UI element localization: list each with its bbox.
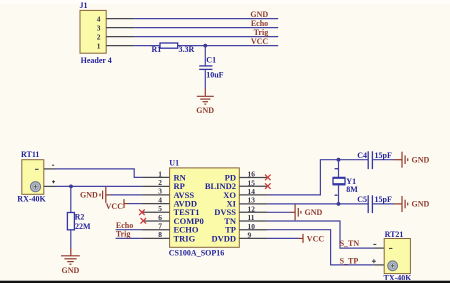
no connect X pin15 [265, 183, 271, 189]
wire J1 pin3 to Echo net [106, 27, 134, 29]
resistor R2 [67, 186, 74, 255]
svg-text:22M: 22M [75, 222, 91, 231]
svg-text:GND: GND [305, 208, 323, 217]
svg-text:GND: GND [250, 10, 268, 19]
svg-text:4: 4 [97, 14, 101, 23]
wire U1 pin14 XO to crystal top [239, 194, 267, 196]
svg-text:S_TN: S_TN [340, 239, 360, 248]
wire U1 pin3 to GND [110, 194, 142, 196]
RT11 plus terminal label [52, 180, 55, 183]
junction node VCC/C1 [203, 44, 207, 48]
svg-text:J1: J1 [80, 1, 88, 10]
RT11 minus terminal label [52, 164, 54, 166]
svg-text:15pF: 15pF [375, 195, 392, 204]
wire U1 pin12 to GND [239, 211, 267, 213]
junction node crystal bottom [337, 202, 341, 206]
wire J1 pin4 to GND net [106, 18, 134, 20]
RT21 plus terminal label [372, 259, 376, 263]
wire U1 pin11 TN to S_TN [239, 220, 267, 222]
J1 pin numbers [97, 14, 101, 50]
junction node crystal top [337, 158, 341, 162]
svg-text:R2: R2 [75, 213, 85, 222]
svg-text:RT11: RT11 [21, 150, 39, 159]
U1 left pin numbers [158, 169, 162, 239]
svg-text:S_TP: S_TP [340, 256, 359, 265]
U1 right pin names [205, 172, 237, 243]
svg-text:1: 1 [97, 41, 101, 50]
wire U1 pin7 Echo [116, 229, 142, 231]
svg-text:1: 1 [158, 169, 162, 178]
svg-text:VCC: VCC [307, 234, 325, 243]
svg-text:Trig: Trig [116, 230, 131, 239]
ground bar symbol C4 [394, 152, 430, 168]
RT21 minus terminal label [373, 243, 376, 245]
capacitor C1 [199, 46, 212, 89]
window bottom edge [0, 280, 450, 283]
power VCC pin9 [303, 234, 324, 243]
IC U1 CS100A_SOP16 [170, 168, 240, 247]
transducer RT21 [384, 239, 410, 274]
wire J1 pin2 to Trig net [106, 36, 134, 38]
wire J1 pin1 to VCC net through R1 [106, 45, 134, 47]
svg-text:2: 2 [158, 178, 162, 187]
connector J1 [80, 10, 106, 53]
svg-text:C5: C5 [357, 195, 367, 204]
transducer RT11 [22, 160, 44, 195]
wire stub U1 pin5 no connect [142, 211, 170, 213]
svg-text:GND: GND [62, 266, 80, 275]
svg-text:RX-40K: RX-40K [17, 195, 46, 204]
svg-text:GND: GND [196, 106, 214, 115]
svg-text:10uF: 10uF [206, 71, 223, 80]
capacitor C4 [368, 151, 394, 169]
svg-text:Echo: Echo [251, 19, 268, 28]
wire RT11 plus to U1 pin2 [44, 185, 55, 187]
crystal Y1 [333, 160, 346, 204]
wire U1 pin4 to VCC [129, 203, 142, 205]
no connect X pin16 [265, 175, 271, 181]
resistor R1 [160, 43, 178, 48]
capacitor C5 [368, 195, 394, 213]
wire U1 pin13 XI to crystal bottom and C5 [239, 203, 267, 205]
U1 left pin names [174, 172, 204, 243]
svg-text:GND: GND [80, 191, 98, 200]
svg-text:Echo: Echo [116, 221, 133, 230]
svg-text:15pF: 15pF [375, 151, 392, 160]
ground symbol below R2 [61, 256, 80, 275]
svg-text:CS100A_SOP16: CS100A_SOP16 [169, 249, 225, 258]
ground bar symbol pin3 [80, 187, 106, 203]
svg-text:R1: R1 [152, 45, 162, 54]
svg-text:8M: 8M [346, 185, 358, 194]
svg-text:C1: C1 [206, 55, 216, 64]
svg-text:Header 4: Header 4 [81, 56, 112, 65]
svg-text:3.3R: 3.3R [179, 45, 195, 54]
no connect X pin6 [141, 218, 147, 224]
wire stub U1 pin6 no connect [143, 220, 169, 222]
ground bar symbol C5 [394, 196, 430, 212]
wire U1 pin10 TP to S_TP [239, 229, 267, 231]
wire U1 pin9 to VCC [239, 237, 267, 239]
wire RT11 minus to U1 pin1 [44, 168, 55, 170]
power VCC pin4 [106, 199, 124, 211]
svg-text:U1: U1 [169, 158, 179, 167]
U1 right pin numbers [248, 170, 256, 240]
svg-text:RT21: RT21 [385, 230, 404, 239]
svg-text:C4: C4 [357, 151, 367, 160]
ground symbol below C1 [196, 89, 214, 115]
svg-text:TRIG: TRIG [174, 233, 196, 243]
ground bar symbol pin12 [295, 204, 322, 220]
wire stub U1 pin16 no connect [239, 177, 267, 179]
no connect X pin5 [139, 210, 145, 216]
junction node R2 top [69, 185, 73, 189]
wire stub U1 pin15 no connect [239, 185, 267, 187]
svg-text:Trig: Trig [254, 28, 269, 37]
svg-text:DVDD: DVDD [211, 233, 236, 243]
svg-text:VCC: VCC [106, 202, 124, 211]
svg-text:3: 3 [97, 23, 101, 32]
wire U1 pin8 Trig [116, 237, 142, 239]
svg-text:GND: GND [412, 200, 430, 209]
svg-text:GND: GND [412, 155, 430, 164]
svg-text:2: 2 [97, 32, 101, 41]
svg-text:VCC: VCC [251, 37, 269, 46]
